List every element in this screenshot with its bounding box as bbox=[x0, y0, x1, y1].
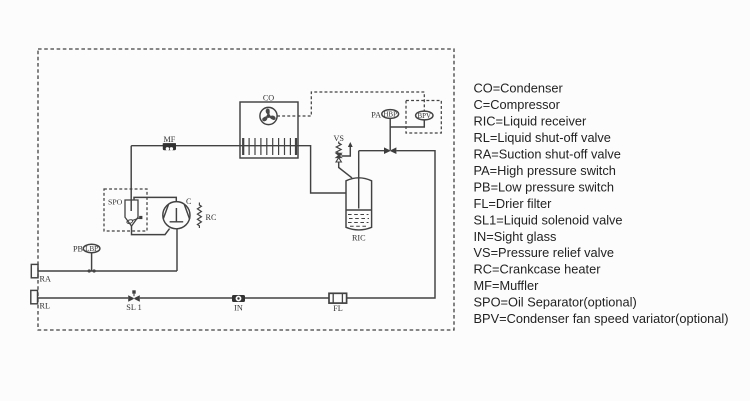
wire: PA switch to discharge valve bbox=[389, 118, 391, 150]
label CO bbox=[263, 94, 274, 103]
legend bbox=[474, 81, 729, 326]
svg-text:LBP: LBP bbox=[85, 245, 98, 253]
svg-text:RA=Suction shut-off valve: RA=Suction shut-off valve bbox=[474, 147, 621, 162]
svg-text:VS: VS bbox=[333, 134, 344, 143]
compressor C bbox=[163, 202, 190, 229]
wire: compressor top pipe bbox=[134, 197, 176, 202]
drier filter FL bbox=[329, 293, 347, 303]
svg-text:PA: PA bbox=[371, 110, 381, 119]
wire: receiver dip tube and liquid line to valve bbox=[359, 151, 384, 209]
label FL bbox=[333, 304, 343, 313]
svg-text:RA: RA bbox=[40, 275, 51, 284]
unit boundary dashed border bbox=[38, 49, 454, 330]
low pressure switch PB bbox=[83, 244, 100, 253]
svg-text:PA=High pressure switch: PA=High pressure switch bbox=[474, 163, 616, 178]
label RIC bbox=[352, 234, 366, 243]
liquid service valve RL bbox=[31, 290, 38, 303]
high pressure switch PA bbox=[382, 110, 399, 119]
label SL 1 bbox=[126, 303, 141, 312]
label VS bbox=[333, 134, 344, 143]
svg-text:MF=Muffler: MF=Muffler bbox=[474, 278, 540, 293]
wire: PA to BPV link bbox=[390, 120, 424, 127]
svg-text:CO=Condenser: CO=Condenser bbox=[474, 81, 564, 96]
wire: discharge line separator to condenser bbox=[131, 146, 298, 211]
pressure relief valve VS body bbox=[336, 153, 341, 162]
condenser fan speed variator BPV bbox=[416, 111, 433, 120]
svg-text:SPO: SPO bbox=[108, 197, 123, 206]
oil separator vessel bbox=[125, 200, 142, 226]
liquid receiver RIC bbox=[346, 178, 372, 230]
label C bbox=[186, 197, 192, 206]
svg-text:CO: CO bbox=[263, 94, 274, 103]
wire: PB tap bbox=[88, 253, 96, 273]
suction service valve RA bbox=[31, 264, 38, 277]
wire: SL1 to IN bbox=[140, 297, 232, 299]
wire: oil return separator to compressor bbox=[132, 226, 170, 235]
svg-text:SL 1: SL 1 bbox=[126, 303, 141, 312]
condenser fins bbox=[243, 138, 296, 155]
svg-text:C: C bbox=[186, 197, 192, 206]
condenser CO box bbox=[240, 102, 298, 158]
muffler MF bbox=[163, 143, 176, 150]
svg-text:RL: RL bbox=[40, 302, 50, 311]
svg-text:HBP: HBP bbox=[383, 111, 397, 119]
wire: suction line bbox=[38, 229, 177, 271]
BPV dashed box bbox=[406, 101, 441, 134]
svg-text:FL=Drier filter: FL=Drier filter bbox=[474, 196, 553, 211]
solenoid valve SL1 bbox=[128, 290, 140, 302]
svg-text:C=Compressor: C=Compressor bbox=[474, 97, 561, 112]
label SPO bbox=[108, 197, 123, 206]
pressure relief valve VS spring bbox=[336, 142, 341, 156]
wire: condenser outlet to receiver bbox=[298, 146, 346, 193]
sight glass IN bbox=[232, 295, 245, 302]
label MF bbox=[163, 135, 175, 144]
label RL bbox=[40, 302, 50, 311]
svg-text:IN=Sight glass: IN=Sight glass bbox=[474, 229, 557, 244]
svg-text:RC: RC bbox=[206, 213, 217, 222]
discharge shut-off valve bbox=[384, 147, 396, 154]
svg-text:BPV: BPV bbox=[417, 112, 431, 120]
wire: VS drain to receiver bbox=[339, 162, 352, 178]
condenser fan bbox=[260, 107, 277, 124]
svg-text:RL=Liquid shut-off valve: RL=Liquid shut-off valve bbox=[474, 130, 611, 145]
label PB bbox=[73, 245, 84, 254]
svg-text:SL1=Liquid solenoid valve: SL1=Liquid solenoid valve bbox=[474, 212, 623, 227]
svg-text:RIC=Liquid receiver: RIC=Liquid receiver bbox=[474, 114, 587, 129]
svg-text:MF: MF bbox=[163, 135, 175, 144]
label PA bbox=[371, 110, 381, 119]
label RA bbox=[40, 275, 51, 284]
VS vent line with arrow bbox=[342, 142, 353, 156]
svg-text:SPO=Oil Separator(optional): SPO=Oil Separator(optional) bbox=[474, 295, 637, 310]
label RC bbox=[206, 213, 217, 222]
svg-text:IN: IN bbox=[234, 304, 243, 313]
wire: liquid bottom run RL to SL1 bbox=[38, 297, 128, 299]
crankcase heater RC bbox=[197, 203, 201, 229]
control dashed line fan to BPV bbox=[277, 92, 424, 116]
svg-text:BPV=Condenser fan speed variat: BPV=Condenser fan speed variator(optiona… bbox=[474, 311, 729, 326]
svg-text:PB=Low pressure switch: PB=Low pressure switch bbox=[474, 179, 614, 194]
svg-text:RIC: RIC bbox=[352, 234, 366, 243]
wire: IN to FL bbox=[245, 297, 329, 299]
label IN bbox=[234, 304, 243, 313]
svg-text:RC=Crankcase heater: RC=Crankcase heater bbox=[474, 262, 602, 277]
oil separator SPO dashed box bbox=[104, 189, 147, 231]
svg-text:FL: FL bbox=[333, 304, 343, 313]
svg-text:PB: PB bbox=[73, 245, 84, 254]
svg-text:VS=Pressure relief valve: VS=Pressure relief valve bbox=[474, 245, 614, 260]
wire: liquid line valve to bottom run bbox=[347, 151, 435, 298]
